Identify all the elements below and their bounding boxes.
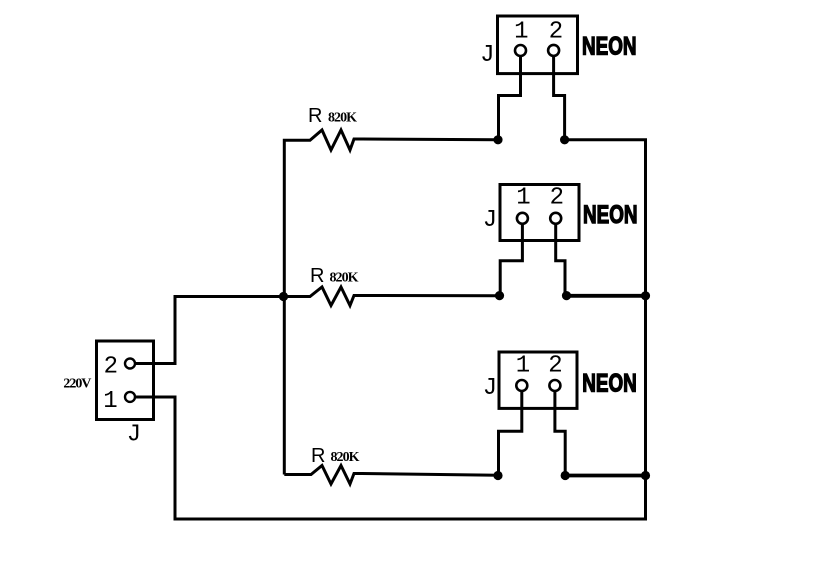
svg-text:R: R [310, 265, 324, 287]
svg-text:2: 2 [548, 353, 562, 380]
svg-text:220V: 220V [63, 376, 91, 391]
svg-text:2: 2 [104, 354, 118, 381]
svg-text:820K: 820K [330, 271, 359, 286]
svg-text:820K: 820K [328, 111, 357, 126]
svg-text:J: J [483, 207, 497, 234]
svg-text:NEON: NEON [582, 33, 637, 61]
svg-text:1: 1 [514, 19, 528, 46]
svg-text:J: J [127, 422, 141, 449]
svg-text:NEON: NEON [582, 369, 637, 397]
svg-text:2: 2 [550, 185, 564, 212]
svg-text:J: J [480, 42, 494, 69]
svg-text:1: 1 [516, 353, 530, 380]
svg-text:1: 1 [516, 185, 530, 212]
svg-text:1: 1 [103, 388, 117, 415]
svg-text:2: 2 [549, 19, 563, 46]
svg-text:R: R [308, 105, 322, 127]
svg-text:R: R [311, 445, 325, 467]
svg-text:820K: 820K [331, 450, 360, 465]
svg-text:NEON: NEON [583, 201, 638, 229]
svg-text:J: J [483, 375, 497, 402]
